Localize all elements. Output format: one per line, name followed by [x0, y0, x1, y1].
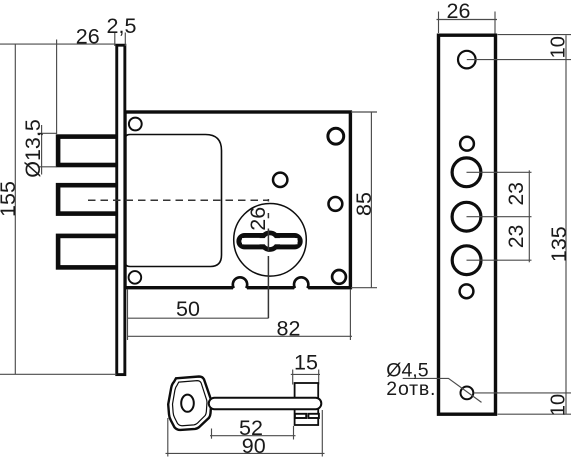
svg-text:26: 26: [76, 25, 100, 49]
svg-text:50: 50: [176, 297, 200, 321]
svg-text:10: 10: [547, 36, 569, 58]
svg-text:26: 26: [246, 207, 270, 231]
svg-text:10: 10: [547, 394, 569, 416]
svg-text:155: 155: [0, 181, 20, 217]
svg-text:15: 15: [294, 351, 318, 375]
svg-text:82: 82: [277, 317, 301, 341]
svg-text:23: 23: [505, 182, 528, 205]
svg-text:Ø13,5: Ø13,5: [21, 119, 45, 178]
svg-text:2отв.: 2отв.: [386, 378, 436, 400]
svg-text:85: 85: [352, 192, 376, 216]
svg-text:23: 23: [505, 225, 528, 248]
svg-text:2,5: 2,5: [107, 14, 137, 38]
svg-text:90: 90: [242, 434, 266, 458]
svg-text:135: 135: [547, 226, 571, 262]
svg-text:26: 26: [447, 0, 471, 23]
